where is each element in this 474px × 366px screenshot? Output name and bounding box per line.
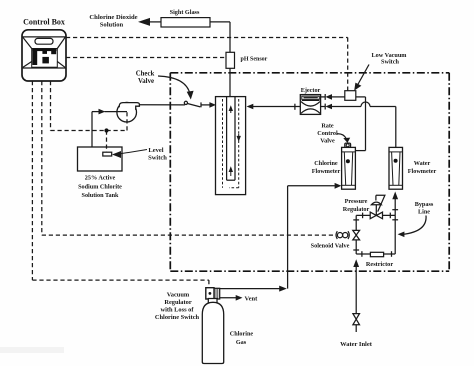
scan smudge bottom left: [0, 347, 64, 353]
svg-text:Solenoid Valve: Solenoid Valve: [311, 242, 350, 249]
wire: ejector discharge to column: [253, 104, 300, 110]
ejector: [300, 95, 320, 115]
control box connector blocks: [32, 49, 56, 65]
level switch: [103, 152, 112, 156]
column flow arrows: [230, 107, 232, 113]
svg-text:Flowmeter: Flowmeter: [408, 168, 437, 175]
wire: sight glass line with arrow to chlorine dioxide solution: [149, 22, 230, 52]
reaction column: [216, 97, 246, 195]
wire: water flowmeter bottom to loop: [394, 199, 396, 215]
svg-text:Check: Check: [136, 71, 155, 78]
vent line: [220, 297, 237, 299]
solenoid valve: [336, 230, 360, 240]
svg-text:Switch: Switch: [381, 59, 399, 66]
svg-text:Pressure: Pressure: [345, 198, 368, 205]
svg-text:pH Sensor: pH Sensor: [241, 56, 268, 62]
pump: [117, 102, 140, 122]
wire: chlorine line switch to ejector (arrow into ejector top port): [321, 94, 345, 100]
wire: chlorine gas line from regulator to chlorine flowmeter: [220, 186, 335, 289]
chlorine flowmeter: [342, 147, 356, 189]
wire: pH sensor to column top: [229, 68, 231, 96]
wire: tank to pump suction: [92, 112, 127, 147]
svg-text:Level: Level: [148, 147, 163, 154]
dashed control line to pH sensor: [66, 57, 226, 59]
svg-text:25% Active: 25% Active: [85, 175, 116, 182]
svg-text:Gas: Gas: [236, 339, 247, 346]
svg-text:Control: Control: [317, 130, 338, 137]
bypass loop: [356, 215, 395, 254]
dashed control line to low vacuum switch: [66, 38, 348, 91]
junction node: [104, 128, 108, 132]
dashed control line to pump and level switch: [51, 81, 128, 152]
wire: pump discharge to check valve: [139, 104, 185, 106]
svg-text:Vent: Vent: [245, 296, 259, 303]
svg-text:Line: Line: [418, 208, 430, 215]
dash-dot boundary: [170, 73, 449, 271]
wire: water flowmeter to ejector with pipe hop: [321, 102, 396, 147]
svg-text:Switch: Switch: [148, 154, 167, 161]
wire: suction stub and control dash inside pump: [117, 111, 127, 113]
column internal dashed flow path: [223, 99, 239, 188]
svg-text:Water Inlet: Water Inlet: [340, 341, 373, 348]
svg-text:Restrictor: Restrictor: [366, 261, 393, 268]
dashed control line to solenoid valve: [42, 81, 335, 235]
svg-text:Solution Tank: Solution Tank: [82, 192, 120, 199]
dashed control line to vacuum regulator: [32, 81, 209, 288]
svg-text:with Loss of: with Loss of: [160, 307, 194, 314]
wire: switch to chlorine flowmeter: [355, 97, 365, 151]
sight glass: [161, 18, 210, 27]
chlorine gas cylinder: [202, 299, 223, 364]
restrictor: [370, 252, 383, 256]
tank 25% sodium chlorite: [78, 147, 123, 171]
svg-text:Bypass: Bypass: [415, 201, 434, 208]
pH sensor: [226, 52, 235, 68]
wire: water inlet line: [355, 267, 357, 333]
water flowmeter: [389, 147, 403, 189]
svg-text:Vacuum: Vacuum: [167, 291, 190, 298]
svg-text:Valve: Valve: [320, 137, 335, 144]
svg-text:Regulator: Regulator: [164, 299, 191, 306]
svg-text:Chlorine: Chlorine: [230, 331, 254, 338]
vacuum regulator: [206, 288, 220, 299]
svg-text:Chlorine Switch: Chlorine Switch: [155, 314, 200, 321]
svg-text:Ejector: Ejector: [301, 87, 321, 94]
svg-text:Chlorine Dioxide: Chlorine Dioxide: [89, 14, 137, 21]
svg-text:Control Box: Control Box: [23, 17, 65, 26]
low vacuum switch: [345, 91, 356, 101]
svg-text:Rate: Rate: [321, 122, 334, 129]
svg-text:Water: Water: [414, 160, 431, 167]
svg-text:Flowmeter: Flowmeter: [312, 168, 341, 175]
pressure regulator: [370, 195, 385, 218]
water inlet valve: [353, 314, 360, 325]
svg-text:Regulator: Regulator: [343, 206, 370, 213]
svg-text:Solution: Solution: [100, 21, 124, 28]
check valve: [184, 101, 210, 107]
control box: [22, 30, 66, 81]
svg-text:Valve: Valve: [138, 78, 154, 85]
svg-text:Chlorine: Chlorine: [314, 160, 338, 167]
union ticks: [353, 210, 398, 257]
svg-text:Sight Glass: Sight Glass: [170, 9, 200, 16]
label arrow to level switch: [117, 150, 147, 155]
svg-text:Sodium Chlorite: Sodium Chlorite: [78, 183, 122, 190]
